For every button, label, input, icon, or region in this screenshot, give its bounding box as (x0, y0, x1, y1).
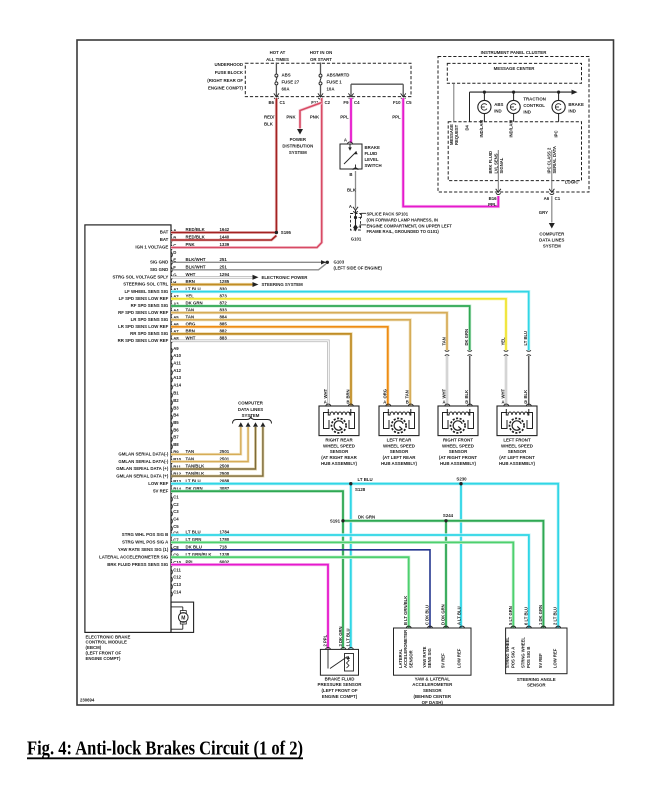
svg-text:IND: IND (568, 108, 575, 113)
svg-text:LT BLU: LT BLU (358, 477, 373, 482)
svg-text:G103: G103 (334, 260, 345, 265)
svg-text:B4: B4 (173, 413, 179, 418)
svg-text:HUB ASSEMBLY): HUB ASSEMBLY) (499, 461, 536, 466)
svg-text:POS SIG A: POS SIG A (511, 647, 516, 668)
svg-text:C4: C4 (354, 100, 360, 105)
svg-text:SPLICE PACK SP101: SPLICE PACK SP101 (367, 212, 409, 217)
svg-text:TRACTION: TRACTION (523, 97, 545, 102)
svg-text:ENGINE COMPT): ENGINE COMPT) (322, 694, 358, 699)
svg-text:BLK: BLK (464, 390, 469, 399)
svg-text:DK BLU: DK BLU (186, 545, 202, 550)
svg-text:RR SPD SENS LOW REF: RR SPD SENS LOW REF (118, 338, 169, 343)
svg-text:C2: C2 (325, 100, 331, 105)
svg-text:WHT: WHT (323, 389, 328, 399)
svg-text:BAT: BAT (160, 230, 169, 235)
svg-text:HOT IN ON: HOT IN ON (310, 50, 332, 55)
svg-text:PPL: PPL (340, 115, 349, 120)
svg-text:STEERING ANGLE: STEERING ANGLE (517, 677, 556, 682)
svg-text:C2: C2 (173, 502, 179, 507)
svg-text:BRAKE FLUID: BRAKE FLUID (325, 676, 355, 681)
svg-text:D DK GRN: D DK GRN (441, 604, 446, 625)
svg-text:BLK: BLK (523, 390, 528, 399)
svg-text:Fig. 4: Anti-lock Brakes Circu: Fig. 4: Anti-lock Brakes Circuit (1 of 2… (27, 738, 303, 760)
svg-text:YAW RATE SENS SIG (1): YAW RATE SENS SIG (1) (118, 547, 169, 552)
svg-text:(ON FORWARD LAMP HARNESS, IN: (ON FORWARD LAMP HARNESS, IN (367, 217, 439, 222)
svg-text:RF SPD SENS SIG: RF SPD SENS SIG (131, 303, 169, 308)
svg-text:BRAKE: BRAKE (568, 102, 584, 107)
svg-text:SENSOR: SENSOR (527, 683, 546, 688)
svg-text:G101: G101 (351, 237, 362, 242)
svg-text:LF WHEEL SENS SIG: LF WHEEL SENS SIG (124, 289, 168, 294)
svg-text:(AT LEFT REAR: (AT LEFT REAR (383, 455, 417, 460)
svg-text:SIG GND: SIG GND (150, 267, 168, 272)
svg-text:IGN 1 VOLTAGE: IGN 1 VOLTAGE (135, 245, 168, 250)
svg-text:D: D (173, 250, 176, 255)
svg-text:B5: B5 (173, 420, 179, 425)
svg-text:STRNG WHEEL: STRNG WHEEL (521, 637, 526, 668)
svg-text:B8: B8 (173, 442, 179, 447)
svg-text:LOGIC: LOGIC (565, 179, 580, 184)
svg-text:C1: C1 (280, 100, 286, 105)
svg-text:WHEEL SPEED: WHEEL SPEED (442, 443, 474, 448)
svg-text:60A: 60A (282, 86, 291, 91)
svg-text:S195: S195 (281, 230, 292, 235)
svg-text:LVL SENS: LVL SENS (493, 153, 498, 173)
svg-text:(AT LEFT FRONT: (AT LEFT FRONT (499, 455, 535, 460)
svg-text:WHT: WHT (501, 389, 506, 399)
svg-text:SENSOR: SENSOR (508, 449, 527, 454)
svg-text:GMLAN SERIAL DATA(-): GMLAN SERIAL DATA(-) (118, 459, 168, 464)
svg-text:A14: A14 (173, 383, 181, 388)
svg-text:C14: C14 (173, 589, 181, 594)
svg-text:BRK FLUID: BRK FLUID (488, 151, 493, 174)
svg-text:RED/: RED/ (264, 115, 275, 120)
svg-text:2 PPL: 2 PPL (323, 634, 328, 646)
svg-text:ABS: ABS (494, 102, 503, 107)
svg-text:HUB ASSEMBLY): HUB ASSEMBLY) (381, 461, 418, 466)
svg-text:SYSTEM: SYSTEM (543, 244, 561, 249)
svg-text:C4: C4 (173, 517, 179, 522)
svg-text:S191: S191 (330, 518, 341, 523)
svg-text:FLUID: FLUID (365, 151, 378, 156)
svg-text:(LEFT FRONT OF: (LEFT FRONT OF (321, 688, 357, 693)
svg-text:IND: IND (523, 109, 530, 114)
svg-text:OR START: OR START (310, 57, 332, 62)
svg-text:251: 251 (220, 265, 228, 270)
svg-text:ENGINE COMPARTMENT, ON UPPER L: ENGINE COMPARTMENT, ON UPPER LEFT (367, 223, 453, 228)
svg-text:LR SPD SENS SIG: LR SPD SENS SIG (131, 317, 169, 322)
svg-text:PPL: PPL (392, 115, 401, 120)
svg-text:GRY: GRY (539, 210, 548, 215)
svg-text:HUB ASSEMBLY): HUB ASSEMBLY) (321, 461, 358, 466)
svg-text:ELECTRONIC POWER: ELECTRONIC POWER (262, 275, 309, 280)
svg-text:251: 251 (220, 257, 228, 262)
svg-text:COMPUTER: COMPUTER (539, 232, 565, 237)
svg-text:HUB ASSEMBLY): HUB ASSEMBLY) (440, 461, 477, 466)
svg-text:PNK: PNK (310, 115, 320, 120)
svg-text:B: B (349, 172, 352, 177)
svg-text:RF SPD SENS LOW REF: RF SPD SENS LOW REF (118, 310, 169, 315)
svg-text:LOW REF: LOW REF (553, 648, 558, 668)
svg-text:C11: C11 (173, 567, 181, 572)
svg-text:POS SIG B: POS SIG B (526, 647, 531, 668)
svg-text:COMPUTER: COMPUTER (238, 401, 264, 406)
svg-text:IND/LAM: IND/LAM (508, 120, 513, 138)
svg-text:C3: C3 (173, 509, 179, 514)
svg-text:STRG SOL VOLTAGE SPLY: STRG SOL VOLTAGE SPLY (112, 275, 168, 280)
svg-text:5 LT GRN: 5 LT GRN (508, 606, 513, 625)
svg-text:A13: A13 (173, 375, 181, 380)
svg-text:A: A (443, 400, 446, 405)
svg-text:A: A (383, 400, 386, 405)
svg-text:SIG GND: SIG GND (150, 260, 168, 265)
svg-text:(LEFT FRONT OF: (LEFT FRONT OF (86, 651, 122, 656)
svg-text:WHEEL SPEED: WHEEL SPEED (323, 443, 355, 448)
svg-text:C1: C1 (173, 495, 179, 500)
svg-text:5V REF: 5V REF (538, 653, 543, 668)
svg-text:A11: A11 (173, 361, 181, 366)
svg-text:B3: B3 (173, 405, 179, 410)
svg-text:B6: B6 (268, 100, 274, 105)
svg-text:1 DK GRN: 1 DK GRN (538, 605, 543, 625)
svg-text:INSTRUMENT PANEL CLUSTER: INSTRUMENT PANEL CLUSTER (481, 50, 548, 55)
svg-text:C5: C5 (406, 100, 412, 105)
svg-text:SENSOR: SENSOR (449, 449, 468, 454)
svg-text:C DK BLU: C DK BLU (425, 605, 430, 625)
svg-text:A12: A12 (173, 368, 181, 373)
svg-text:WHEEL SPEED: WHEEL SPEED (501, 443, 533, 448)
svg-text:SENS SIG: SENS SIG (427, 648, 432, 668)
svg-text:FRAME RAIL, GROUNDED TO G101): FRAME RAIL, GROUNDED TO G101) (367, 229, 440, 234)
svg-text:POWER: POWER (290, 137, 307, 142)
svg-text:LATERAL: LATERAL (398, 648, 403, 668)
svg-text:FUSE 1: FUSE 1 (327, 79, 343, 84)
svg-text:REQUEST: REQUEST (454, 124, 459, 145)
svg-text:HOT AT: HOT AT (270, 50, 286, 55)
svg-text:WHEEL SPEED: WHEEL SPEED (383, 443, 415, 448)
svg-text:CONTROL MODULE: CONTROL MODULE (86, 640, 128, 645)
svg-text:230694: 230694 (80, 698, 95, 703)
svg-text:SENSOR: SENSOR (330, 449, 349, 454)
svg-text:718: 718 (220, 545, 228, 550)
svg-text:FUSE BLOCK: FUSE BLOCK (215, 70, 244, 75)
svg-text:(BEHIND CENTER: (BEHIND CENTER (414, 694, 452, 699)
svg-text:A LT BLU: A LT BLU (457, 606, 462, 625)
svg-text:BRAKE: BRAKE (365, 145, 381, 150)
svg-text:F10: F10 (393, 100, 401, 105)
svg-text:ENGINE COMPT): ENGINE COMPT) (86, 656, 122, 661)
svg-text:C13: C13 (173, 582, 181, 587)
svg-text:YAW RATE: YAW RATE (422, 646, 427, 668)
svg-text:LATERAL ACCELEROMETER SIG: LATERAL ACCELEROMETER SIG (99, 554, 169, 559)
svg-text:LEFT FRONT: LEFT FRONT (503, 438, 531, 443)
svg-text:FUSE 27: FUSE 27 (282, 79, 300, 84)
svg-text:10A: 10A (327, 86, 336, 91)
svg-text:C5: C5 (173, 524, 179, 529)
svg-text:RR SPD SENS SIG: RR SPD SENS SIG (130, 331, 169, 336)
svg-text:A9: A9 (173, 346, 179, 351)
svg-text:ALL TIMES: ALL TIMES (266, 57, 289, 62)
svg-text:DISTRIBUTION: DISTRIBUTION (282, 144, 313, 149)
svg-text:B: B (406, 400, 409, 405)
svg-text:CONTROL: CONTROL (523, 103, 545, 108)
svg-text:RIGHT FRONT: RIGHT FRONT (443, 438, 473, 443)
svg-text:(AT RIGHT REAR: (AT RIGHT REAR (321, 455, 357, 460)
svg-text:SIGNAL: SIGNAL (499, 157, 504, 173)
svg-text:SENSOR: SENSOR (390, 449, 409, 454)
svg-text:RIGHT REAR: RIGHT REAR (325, 438, 353, 443)
svg-text:IND: IND (494, 108, 501, 113)
svg-text:B2: B2 (173, 398, 179, 403)
svg-text:IPC: IPC (553, 131, 558, 138)
svg-text:GMLAN SERIAL DATA (+): GMLAN SERIAL DATA (+) (116, 466, 169, 471)
svg-text:5V REF: 5V REF (153, 488, 169, 493)
svg-text:2 LT BLU: 2 LT BLU (553, 607, 558, 625)
svg-text:ELECTRONIC BRAKE: ELECTRONIC BRAKE (86, 634, 131, 639)
svg-text:C12: C12 (173, 575, 181, 580)
svg-text:YEL: YEL (501, 337, 506, 346)
svg-text:A: A (344, 138, 347, 143)
svg-text:SENSOR: SENSOR (423, 688, 442, 693)
svg-text:BLK/WHT: BLK/WHT (186, 265, 206, 270)
svg-text:BLK: BLK (264, 122, 274, 127)
svg-text:ABS/MRTD: ABS/MRTD (327, 72, 350, 77)
svg-text:C1: C1 (555, 196, 561, 201)
svg-text:B LT GRN/BLK: B LT GRN/BLK (403, 596, 408, 625)
svg-text:B: B (465, 400, 468, 405)
svg-text:1 LT BLU: 1 LT BLU (345, 628, 350, 646)
svg-text:BRK FLUID PRESS SENS SIG: BRK FLUID PRESS SENS SIG (107, 562, 169, 567)
svg-text:TAN: TAN (405, 390, 410, 398)
svg-text:DATA LINES: DATA LINES (539, 238, 564, 243)
svg-text:B7: B7 (173, 435, 179, 440)
svg-text:A: A (349, 204, 352, 209)
svg-text:B: B (524, 400, 527, 405)
svg-text:PNK: PNK (286, 115, 296, 120)
svg-text:STEERING SOL CTRL: STEERING SOL CTRL (123, 282, 168, 287)
svg-text:ORG: ORG (382, 389, 387, 399)
svg-text:DATA LINES: DATA LINES (238, 407, 263, 412)
svg-text:WHT: WHT (442, 389, 447, 399)
svg-text:A: A (502, 400, 505, 405)
svg-text:SWITCH: SWITCH (365, 163, 382, 168)
svg-text:S230: S230 (456, 476, 467, 481)
svg-text:SENSOR: SENSOR (409, 650, 414, 668)
svg-text:LOW REF: LOW REF (148, 481, 168, 486)
svg-text:A10: A10 (173, 353, 181, 358)
svg-text:(EBCM): (EBCM) (86, 645, 102, 650)
svg-text:STRNG WHEEL: STRNG WHEEL (505, 637, 510, 668)
svg-text:B6: B6 (173, 427, 179, 432)
svg-text:LEVEL: LEVEL (365, 157, 379, 162)
svg-text:SERIAL DATA: SERIAL DATA (552, 146, 557, 173)
svg-text:M: M (181, 615, 185, 621)
svg-text:LT BLU: LT BLU (523, 331, 528, 346)
svg-text:DK GRN: DK GRN (358, 514, 375, 519)
svg-text:MESSAGE CENTER: MESSAGE CENTER (494, 66, 536, 71)
svg-text:ENGINE COMPT): ENGINE COMPT) (208, 86, 244, 91)
svg-text:UNDERHOOD: UNDERHOOD (215, 62, 243, 67)
svg-text:A: A (324, 400, 327, 405)
svg-text:(LEFT SIDE OF ENGINE): (LEFT SIDE OF ENGINE) (334, 266, 383, 271)
svg-text:6 LT BLU: 6 LT BLU (523, 607, 528, 625)
svg-text:BLK/WHT: BLK/WHT (186, 257, 206, 262)
svg-text:ACCELEROMETER: ACCELEROMETER (412, 682, 453, 687)
svg-text:YAW & LATERAL: YAW & LATERAL (415, 676, 451, 681)
svg-text:S244: S244 (443, 513, 454, 518)
svg-text:SYSTEM: SYSTEM (289, 150, 307, 155)
svg-text:STEERING SYSTEM: STEERING SYSTEM (262, 282, 304, 287)
svg-text:D4: D4 (464, 124, 469, 130)
svg-text:DK GRN: DK GRN (464, 329, 469, 346)
svg-text:IND/LAM: IND/LAM (479, 120, 484, 138)
svg-text:LF SPD SENS LOW REF: LF SPD SENS LOW REF (119, 296, 169, 301)
svg-text:ABS: ABS (282, 72, 291, 77)
svg-text:B16: B16 (489, 196, 498, 201)
svg-text:TAN: TAN (442, 337, 447, 345)
svg-text:(AT RIGHT FRONT: (AT RIGHT FRONT (439, 455, 478, 460)
svg-text:LR SPD SENS LOW REF: LR SPD SENS LOW REF (118, 324, 169, 329)
svg-text:3 DK GRN: 3 DK GRN (338, 626, 343, 646)
svg-text:MESSAGE: MESSAGE (449, 124, 454, 145)
svg-text:LEFT REAR: LEFT REAR (387, 438, 412, 443)
svg-text:GMLAN SERIAL DATA (+): GMLAN SERIAL DATA (+) (116, 473, 169, 478)
svg-text:B: B (347, 400, 350, 405)
svg-text:B1: B1 (173, 391, 179, 396)
svg-text:STRG WHL POS SIG A: STRG WHL POS SIG A (122, 540, 169, 545)
svg-text:PRESSURE SENSOR: PRESSURE SENSOR (318, 682, 363, 687)
svg-text:BRN: BRN (346, 389, 351, 398)
svg-text:BAT: BAT (160, 237, 169, 242)
svg-text:GMLAN SERIAL DATA(-): GMLAN SERIAL DATA(-) (118, 452, 168, 457)
svg-text:A6: A6 (544, 196, 550, 201)
svg-text:ACCELEROMETER: ACCELEROMETER (403, 630, 408, 668)
svg-text:5V REF: 5V REF (441, 653, 446, 668)
svg-text:BLK: BLK (347, 188, 357, 193)
svg-text:LOW REF: LOW REF (457, 648, 462, 668)
svg-text:PPL: PPL (488, 202, 497, 207)
svg-text:OF DASH): OF DASH) (422, 700, 444, 705)
svg-text:S128: S128 (355, 487, 366, 492)
svg-text:STRG WHL POS SIG B: STRG WHL POS SIG B (122, 532, 169, 537)
svg-text:IPC CLASS 2: IPC CLASS 2 (547, 147, 552, 173)
svg-text:(RIGHT REAR OF: (RIGHT REAR OF (207, 78, 243, 83)
svg-text:F9: F9 (343, 100, 349, 105)
